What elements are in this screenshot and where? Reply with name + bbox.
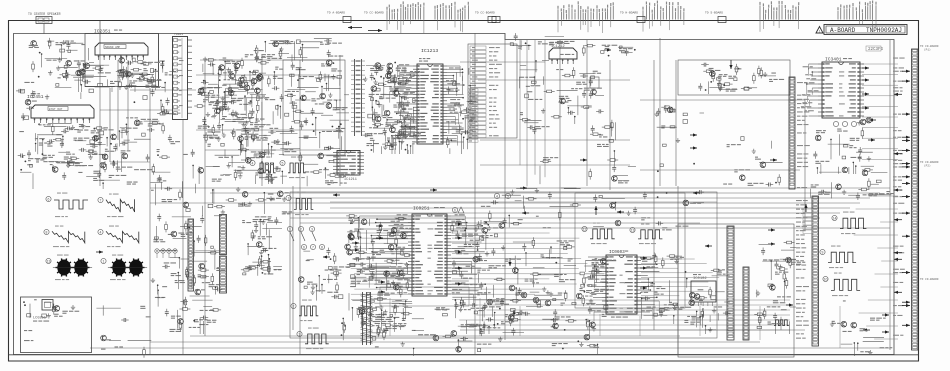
svg-text:TO CENTER SPEAKER: TO CENTER SPEAKER: [28, 12, 61, 16]
svg-text:12: 12: [583, 228, 587, 232]
svg-text:7: 7: [312, 246, 314, 250]
svg-text:13: 13: [47, 260, 51, 264]
svg-text:TU101: TU101: [174, 33, 183, 36]
svg-text:5: 5: [282, 162, 284, 166]
svg-text:TNPH0092AJ: TNPH0092AJ: [866, 27, 902, 34]
svg-text:3: 3: [299, 333, 301, 337]
svg-text:1: 1: [288, 197, 290, 201]
svg-text:!: !: [819, 28, 820, 33]
svg-text:10: 10: [824, 278, 828, 282]
svg-text:A-BOARD: A-BOARD: [830, 27, 856, 34]
svg-text:1: 1: [103, 260, 105, 264]
svg-text:IC1213: IC1213: [421, 48, 438, 54]
svg-text:TO CC-BOARD: TO CC-BOARD: [475, 12, 495, 15]
svg-text:TO CD-BOARD: TO CD-BOARD: [920, 278, 939, 281]
svg-text:(P2): (P2): [924, 164, 931, 168]
svg-text:TO S-BOARD: TO S-BOARD: [705, 12, 723, 15]
svg-text:9: 9: [822, 251, 824, 255]
svg-text:6: 6: [303, 246, 305, 250]
svg-text:2: 2: [300, 228, 302, 232]
svg-text:4: 4: [100, 231, 102, 235]
svg-text:TO A-BOARD: TO A-BOARD: [327, 12, 345, 15]
svg-text:2: 2: [293, 305, 295, 309]
svg-text:IC2351: IC2351: [94, 29, 111, 35]
svg-text:IC1212: IC1212: [551, 45, 565, 49]
svg-text:8: 8: [46, 231, 48, 235]
svg-text:SOUND AMP: SOUND AMP: [105, 46, 120, 49]
svg-text:IC0102: IC0102: [693, 277, 707, 281]
svg-text:LC0251: LC0251: [33, 317, 46, 321]
svg-text:1: 1: [289, 228, 291, 232]
svg-text:7: 7: [100, 199, 102, 203]
svg-text:IC0251: IC0251: [413, 206, 430, 212]
svg-text:6: 6: [48, 198, 50, 202]
svg-text:6: 6: [454, 209, 456, 213]
svg-text:IC1211: IC1211: [344, 178, 357, 182]
svg-text:TO CC-BOARD: TO CC-BOARD: [364, 12, 384, 15]
svg-text:14: 14: [833, 217, 837, 221]
svg-text:13: 13: [631, 229, 635, 233]
svg-text:(P1): (P1): [924, 48, 931, 52]
svg-text:EYHT OUT: EYHT OUT: [49, 108, 63, 111]
svg-text:3: 3: [311, 228, 313, 232]
svg-text:IC2451: IC2451: [27, 94, 44, 100]
svg-text:8: 8: [321, 246, 323, 250]
svg-text:IC0603: IC0603: [609, 250, 625, 255]
svg-text:TO H-BOARD: TO H-BOARD: [620, 12, 638, 15]
svg-text:4: 4: [496, 195, 498, 199]
svg-text:IC3401: IC3401: [825, 57, 842, 63]
svg-text:4: 4: [252, 162, 254, 166]
